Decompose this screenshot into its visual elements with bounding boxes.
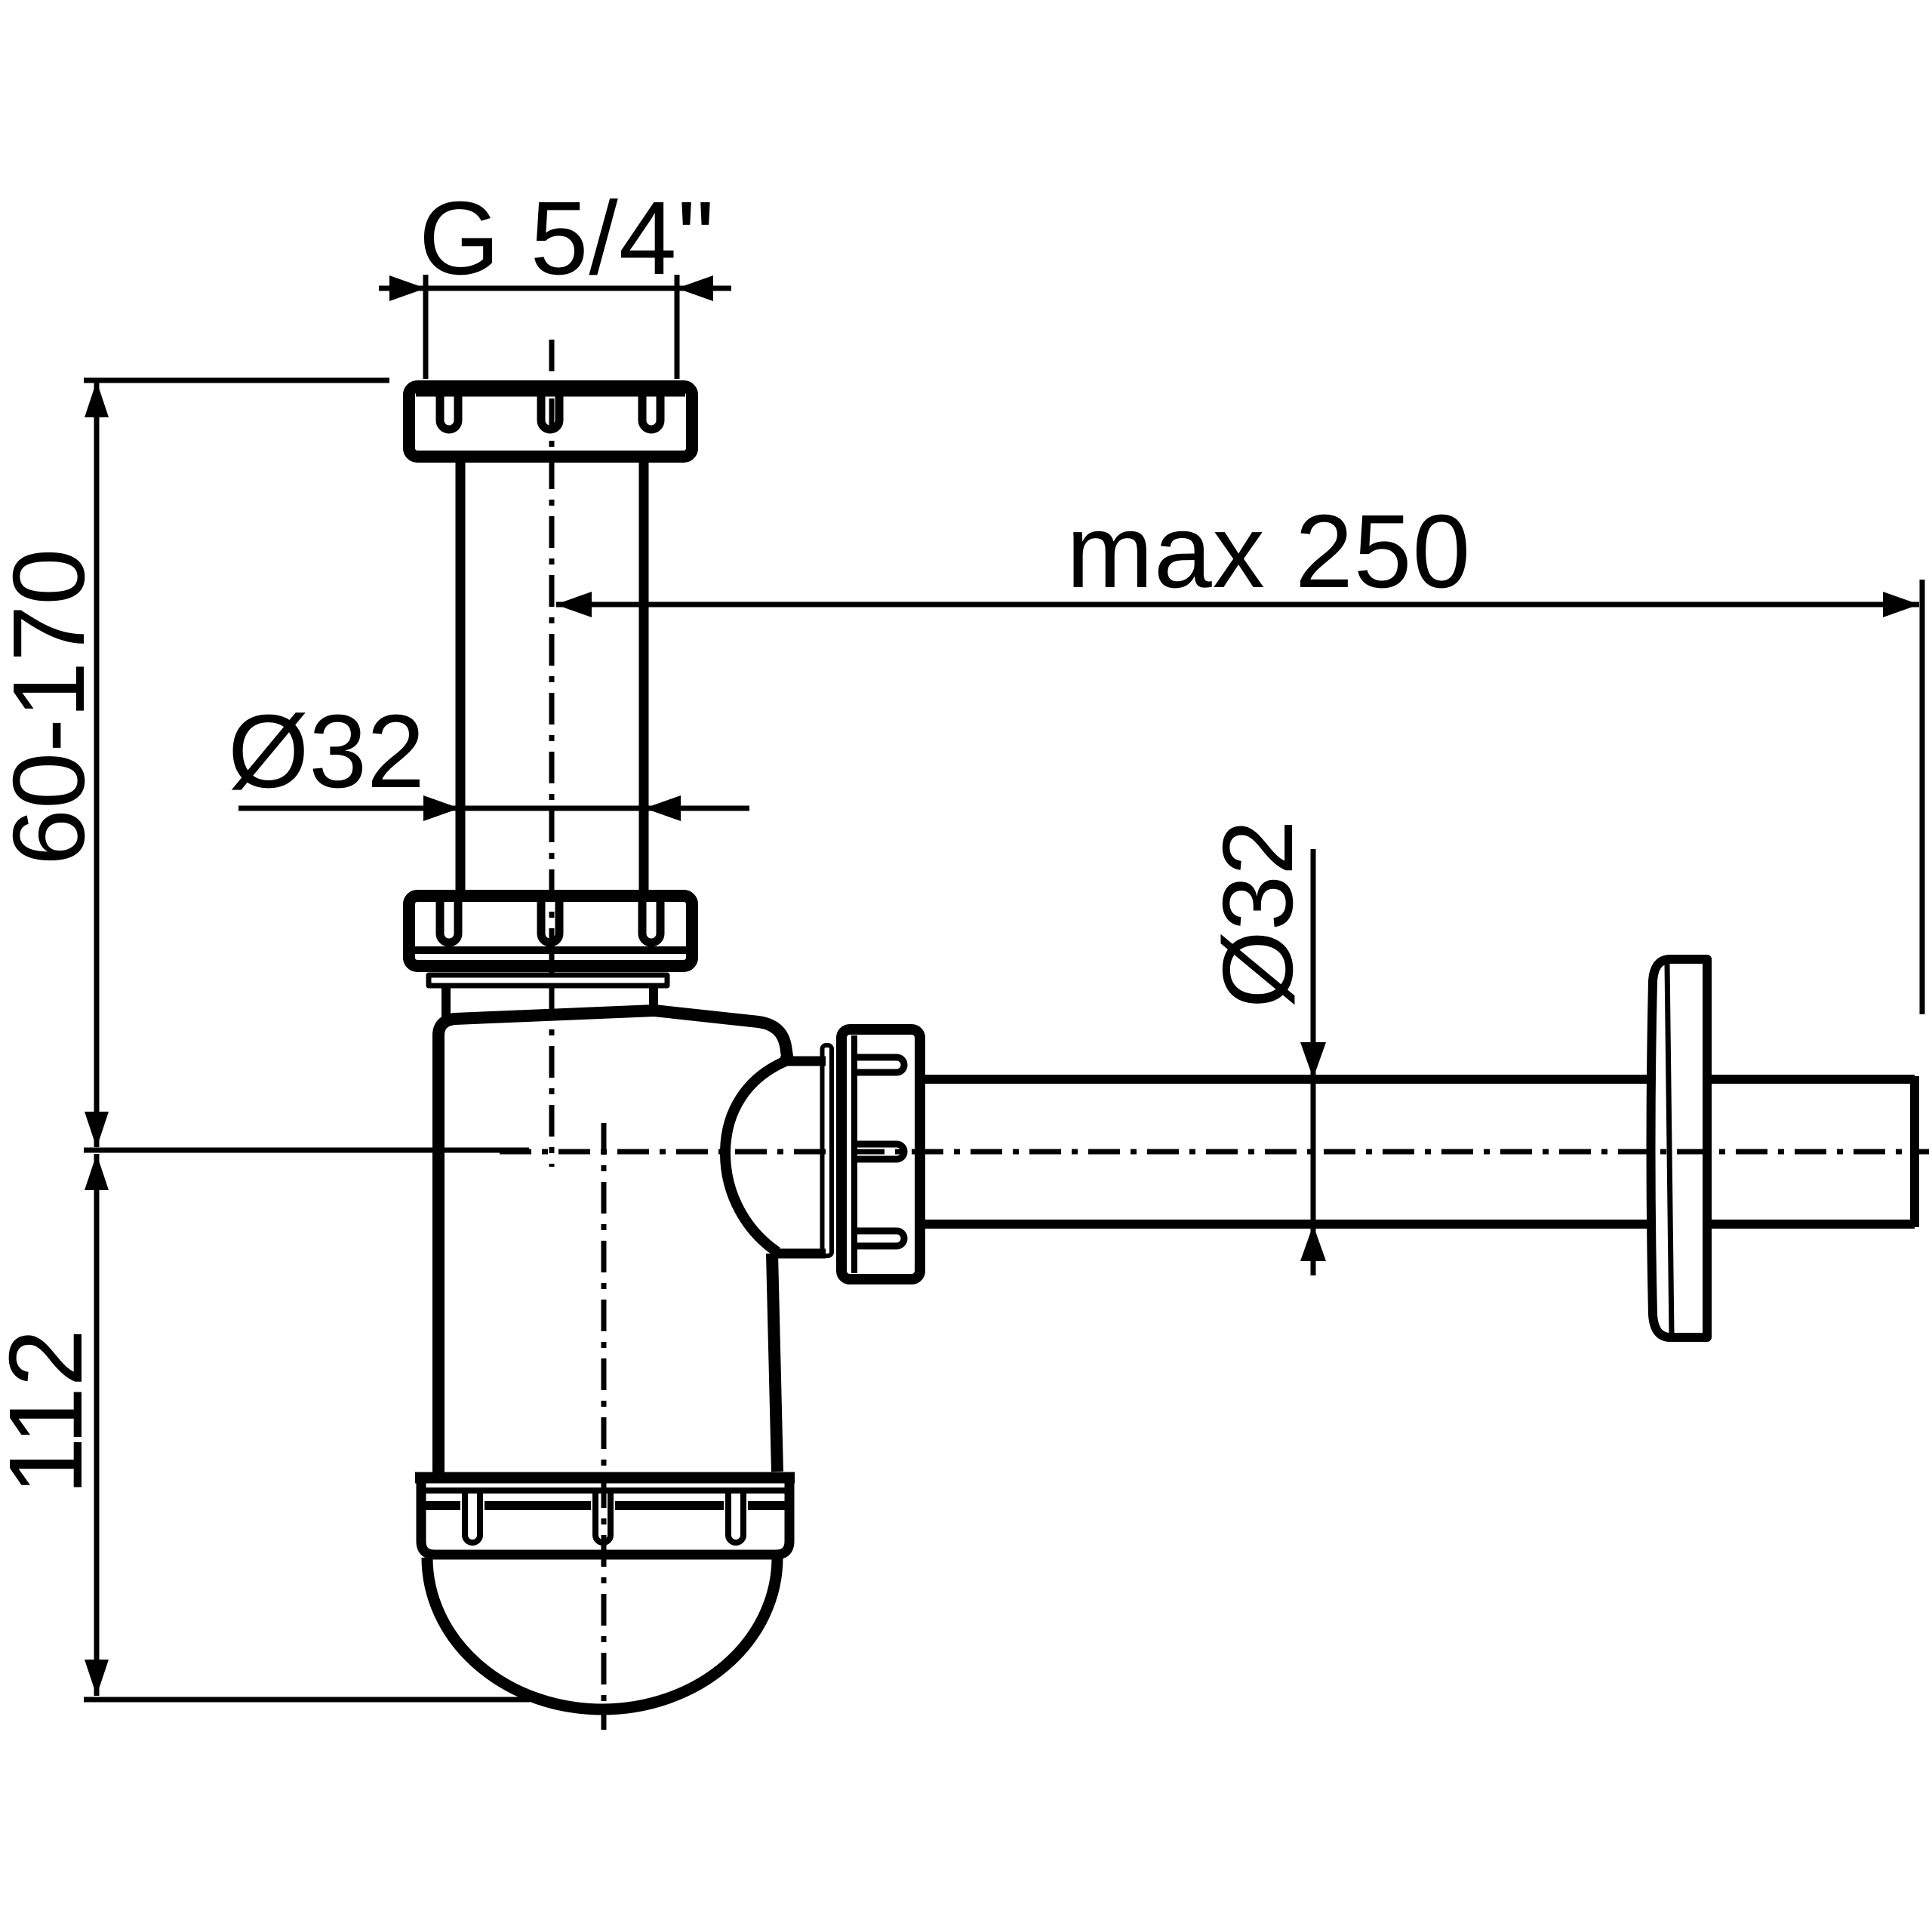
dimension line Ø32 (outlet pipe) bbox=[1311, 849, 1316, 1275]
extension line top (60-170) bbox=[84, 378, 389, 383]
bottom nut mid line seg 1 bbox=[420, 1501, 460, 1510]
wall flange rim line bbox=[1667, 963, 1672, 1334]
dimension line max 250 bbox=[556, 602, 1919, 608]
arrowhead up (60-170) bbox=[85, 381, 109, 417]
branch fillet arc bbox=[725, 1061, 786, 1252]
bottom dome cup bbox=[427, 1558, 777, 1709]
trap body right wall bbox=[772, 1254, 777, 1472]
arrowhead left (max 250) bbox=[555, 592, 592, 617]
bottom nut inner thin line bbox=[420, 1487, 791, 1494]
bottom nut slot 3 bbox=[728, 1489, 743, 1543]
wall flange rosette bbox=[1651, 959, 1708, 1337]
dimension line 60-170 bbox=[94, 382, 100, 1147]
bottom nut slot 2 bbox=[595, 1489, 611, 1543]
arrowhead right (max 250) bbox=[1883, 592, 1919, 617]
side nut slot 2 bbox=[853, 1144, 904, 1159]
bottom nut top edge bbox=[415, 1472, 795, 1484]
middle nut slot 3 bbox=[642, 894, 660, 943]
svg-text:Ø32: Ø32 bbox=[1202, 820, 1313, 1009]
centerline inlet axis bbox=[549, 340, 555, 1167]
arrowhead down (112) bbox=[85, 1660, 109, 1696]
bottom nut mid line seg 4 bbox=[748, 1501, 789, 1510]
branch outlet top edge bbox=[780, 1057, 826, 1066]
arrowhead down (60-170) bbox=[85, 1112, 109, 1148]
inlet tube left wall bbox=[456, 463, 466, 891]
arrowhead right (Ø32 inlet) bbox=[645, 795, 681, 821]
dimension line 112 bbox=[94, 1154, 100, 1696]
svg-text:max 250: max 250 bbox=[1066, 494, 1471, 610]
branch outlet bottom edge bbox=[771, 1249, 826, 1259]
outlet pipe top wall seg 2 bbox=[1710, 1075, 1915, 1084]
arrowhead left (G 5/4) bbox=[389, 275, 426, 301]
extension line mid (outlet axis reference) bbox=[84, 1148, 529, 1153]
trap body left wall and shoulder bbox=[438, 1011, 788, 1473]
top nut inner line bbox=[416, 390, 685, 397]
extension line bottom (112) bbox=[84, 1697, 530, 1703]
branch gasket bbox=[823, 1045, 832, 1256]
body neck right wall bbox=[649, 988, 658, 1015]
svg-text:G 5/4": G 5/4" bbox=[419, 180, 715, 297]
outlet pipe top wall seg 1 bbox=[925, 1075, 1651, 1084]
outlet pipe end cap bbox=[1910, 1076, 1919, 1227]
middle nut slot 1 bbox=[440, 894, 458, 943]
bottom nut sides and bottom bbox=[421, 1481, 789, 1555]
extension line right (G 5/4) bbox=[675, 275, 680, 379]
dimension line Ø32 (inlet tube) bbox=[238, 806, 749, 811]
svg-text:112: 112 bbox=[0, 1329, 104, 1495]
washer under middle nut bbox=[429, 975, 667, 986]
arrowhead up (112) bbox=[85, 1154, 109, 1190]
bottom nut mid line seg 2 bbox=[485, 1501, 591, 1510]
centerline body axis bbox=[601, 1123, 607, 1730]
side nut slot 3 bbox=[853, 1231, 904, 1246]
middle nut inner flange line bbox=[414, 946, 687, 954]
extension line right (max 250) bbox=[1920, 580, 1925, 1014]
top union nut bbox=[409, 386, 692, 457]
dimension line G 5/4 bbox=[379, 286, 731, 291]
arrowhead left (Ø32 inlet) bbox=[423, 795, 460, 821]
middle union nut bbox=[409, 896, 692, 966]
svg-text:Ø32: Ø32 bbox=[228, 694, 425, 810]
arrowhead right (G 5/4) bbox=[677, 275, 713, 301]
centerline outlet axis bbox=[500, 1149, 1929, 1155]
arrowhead down (Ø32 outlet) bbox=[1300, 1042, 1326, 1078]
top nut slot 2 bbox=[541, 392, 559, 429]
side nut inner line bbox=[851, 1035, 857, 1273]
svg-text:60-170: 60-170 bbox=[0, 549, 106, 866]
bottom nut slot 1 bbox=[465, 1489, 480, 1543]
top nut slot 3 bbox=[642, 392, 660, 429]
side nut slot 1 bbox=[853, 1057, 904, 1072]
outlet pipe bottom wall seg 1 bbox=[925, 1220, 1651, 1229]
body neck left wall bbox=[441, 988, 451, 1023]
middle nut slot 2 bbox=[541, 894, 559, 943]
top nut slot 1 bbox=[440, 392, 458, 429]
arrowhead up (Ø32 outlet) bbox=[1300, 1225, 1326, 1261]
bottom nut mid line seg 3 bbox=[615, 1501, 724, 1510]
inlet tube right wall bbox=[639, 463, 649, 891]
extension line left (G 5/4) bbox=[423, 275, 429, 379]
outlet pipe bottom wall seg 2 bbox=[1710, 1220, 1915, 1229]
side union nut bbox=[841, 1029, 920, 1279]
